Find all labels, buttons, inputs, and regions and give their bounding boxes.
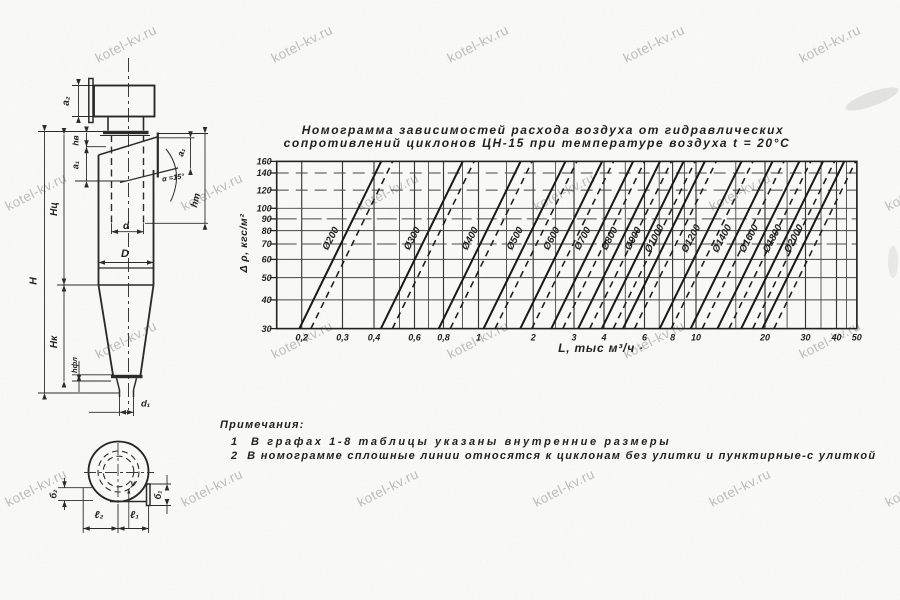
svg-text:30: 30: [262, 324, 272, 334]
dimension H total: [38, 392, 120, 394]
curve dashed D=2000 (with scroll): [774, 161, 856, 328]
svg-text:50: 50: [262, 273, 272, 283]
dust outlet pipe: [117, 378, 120, 390]
dimension D: [99, 262, 154, 264]
curve dashed D=200 (with scroll): [311, 161, 393, 328]
svg-text:ℓ₂: ℓ₂: [95, 510, 104, 521]
cylinder bottom / cone top: [99, 284, 154, 286]
outlet box: [94, 86, 155, 117]
svg-text:2: 2: [530, 333, 536, 343]
dimension h_t right: [158, 133, 208, 135]
svg-text:20: 20: [759, 333, 770, 343]
svg-text:ℓ₁: ℓ₁: [130, 510, 139, 521]
svg-text:Номограмма зависимостей расход: Номограмма зависимостей расхода воздуха …: [302, 123, 785, 137]
svg-text:1: 1: [476, 333, 481, 343]
curve solid D=2000 (without scroll): [762, 161, 844, 328]
inner dashed circle 2: [103, 456, 134, 487]
curve solid D=1000 (without scroll): [623, 161, 705, 328]
svg-text:a₁: a₁: [71, 161, 81, 169]
mark b with arrow: [128, 490, 130, 529]
svg-text:60: 60: [262, 255, 272, 265]
inlet top slanted edge: [99, 137, 158, 155]
angle arc alpha: [166, 149, 177, 202]
svg-text:10: 10: [691, 333, 701, 343]
curve dashed D=1400 (with scroll): [702, 161, 784, 328]
svg-text:50: 50: [852, 333, 862, 343]
cylinder seam line: [99, 267, 154, 269]
svg-text:8: 8: [670, 333, 675, 343]
svg-text:120: 120: [257, 185, 272, 195]
inlet bottom 15 deg line: [120, 168, 178, 183]
curve dashed D=400 (with scroll): [450, 161, 532, 328]
curve solid D=1600 (without scroll): [718, 161, 800, 328]
upper flange plate: [103, 131, 149, 134]
curve solid D=1200 (without scroll): [660, 161, 742, 328]
svg-text:0,6: 0,6: [408, 333, 422, 343]
neck below box: [107, 117, 109, 131]
chart grid vertical minor lines: [400, 161, 847, 328]
scroll outlet bottom line: [110, 501, 147, 503]
scan smudge right edge: [888, 246, 898, 278]
scan smudge top right: [843, 83, 900, 115]
notes: [220, 419, 876, 462]
svg-text:б₂: б₂: [49, 489, 59, 499]
dimension a2: [72, 85, 94, 87]
curve dashed D=800 (with scroll): [590, 161, 672, 328]
svg-text:L, тыс м³/ч ·: L, тыс м³/ч ·: [558, 341, 644, 355]
svg-text:40: 40: [261, 295, 272, 305]
chart grid vertical major lines: [302, 161, 857, 328]
y axis ticks: [270, 161, 277, 328]
curve dashed D=700 (with scroll): [563, 161, 645, 328]
dimension b1 right: [150, 483, 171, 485]
svg-text:1 В графах 1-8 таблицы указан: 1 В графах 1-8 таблицы указаны внутренни…: [231, 436, 671, 448]
dimension d: [111, 223, 113, 234]
cone: [99, 285, 114, 375]
svg-text:d₁: d₁: [141, 399, 150, 410]
curve dashed D=600 (with scroll): [532, 161, 614, 328]
svg-text:0,4: 0,4: [368, 333, 381, 343]
dimension d1: [89, 411, 134, 413]
curve solid D=400 (without scroll): [439, 161, 521, 328]
cylinder body: [98, 155, 100, 285]
curve dashed D=1800 (with scroll): [753, 161, 835, 328]
curve solid D=900 (without scroll): [602, 161, 684, 328]
svg-text:2 В номограмме сплошные линии: 2 В номограмме сплошные линии относятся …: [230, 450, 876, 462]
dimension b2 left: [58, 487, 92, 489]
curve solid D=500 (without scroll): [484, 161, 566, 328]
svg-text:D: D: [121, 248, 129, 260]
svg-text:80: 80: [262, 226, 272, 236]
curve solid D=800 (without scroll): [578, 161, 660, 328]
curve solid D=1800 (without scroll): [741, 161, 823, 328]
cone bottom flange: [111, 375, 143, 378]
curve dashed D=1200 (with scroll): [671, 161, 753, 328]
bottom view outer circle: [89, 442, 149, 502]
y axis value labels: [257, 157, 272, 334]
svg-text:d: d: [123, 221, 130, 232]
x axis value labels: [295, 333, 861, 343]
inner tube dashed: [111, 135, 113, 223]
dimensions l2 l1: [82, 488, 84, 533]
chart grid horizontal lines: [277, 161, 857, 328]
svg-text:0,2: 0,2: [295, 333, 308, 343]
svg-text:hфл: hфл: [70, 357, 79, 373]
curve solid D=300 (without scroll): [381, 161, 463, 328]
svg-text:Нк: Нк: [49, 335, 60, 348]
curve dashed D=300 (with scroll): [392, 161, 474, 328]
curve solid D=700 (without scroll): [551, 161, 633, 328]
curve dashed D=1000 (with scroll): [635, 161, 717, 328]
svg-text:б₁: б₁: [153, 491, 163, 500]
curve dashed D=500 (with scroll): [495, 161, 577, 328]
inner dashed circle 1: [98, 451, 139, 492]
svg-text:a₂: a₂: [61, 96, 72, 106]
scroll outlet flange: [147, 484, 151, 506]
curve dashed D=900 (with scroll): [613, 161, 695, 328]
chart frame: [277, 161, 857, 328]
svg-text:сопротивлений циклонов ЦН-15 п: сопротивлений циклонов ЦН-15 при темпера…: [284, 136, 791, 150]
svg-text:140: 140: [257, 168, 272, 178]
centerline vertical axis: [128, 58, 130, 410]
left dimension a1: [75, 180, 126, 182]
svg-text:0,3: 0,3: [336, 333, 349, 343]
curve dashed D=1600 (with scroll): [729, 161, 811, 328]
curve solid D=600 (without scroll): [520, 161, 602, 328]
svg-text:70: 70: [262, 239, 272, 249]
dimension a1 right: [158, 137, 195, 139]
svg-text:Δ ρ, кгс/м²: Δ ρ, кгс/м²: [238, 213, 250, 273]
svg-text:90: 90: [262, 214, 272, 224]
curve solid D=1400 (without scroll): [691, 161, 773, 328]
svg-text:hв: hв: [71, 135, 81, 145]
svg-text:160: 160: [257, 157, 272, 167]
crosshair centerlines: [84, 472, 154, 474]
outlet flange left: [89, 79, 93, 123]
svg-text:40: 40: [830, 333, 841, 343]
svg-text:Нц: Нц: [49, 202, 60, 216]
left dimension h_v: [86, 133, 88, 147]
svg-text:Примечания:: Примечания:: [220, 419, 305, 431]
inlet opening edge: [157, 133, 159, 178]
dimension Hc cylinder height: [38, 131, 103, 133]
svg-text:100: 100: [257, 204, 272, 214]
svg-text:30: 30: [800, 333, 810, 343]
curve solid D=200 (without scroll): [299, 161, 381, 328]
svg-text:Н: Н: [28, 277, 40, 285]
svg-text:0,8: 0,8: [437, 333, 450, 343]
dimension h_fl flange: [72, 374, 114, 376]
